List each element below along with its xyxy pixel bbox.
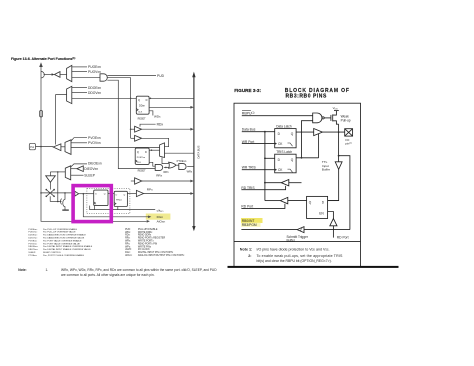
wire RD Port buffer out [265,200,280,202]
wire pin line [41,192,75,194]
node pin [338,131,340,133]
schmitt X symbol [46,189,62,201]
node drain-pin [64,192,66,194]
pad squiggle [41,71,44,78]
svg-text:READ PORTx PIN: READ PORTx PIN [138,242,158,245]
wire TTL out to latch D [328,169,339,200]
latch Q-D EN [307,196,328,218]
wire buffer enable [318,134,320,158]
svg-text:RESET: RESET [138,169,147,172]
wire RBPU to NAND [242,115,313,117]
buffer RRx [135,178,142,184]
svg-text:PUD:: PUD: [125,229,131,231]
wire DIxn [83,194,148,217]
svg-text:Q: Q [291,132,294,136]
wire RRx to bus [142,180,191,182]
svg-text:Q: Q [124,194,126,196]
wire DIEOExn [71,164,87,167]
node rdx-in [130,128,132,130]
wire driver to mux3 [61,146,65,148]
wire gateA to gateB [164,166,169,168]
node databus [264,131,266,133]
svg-text:D: D [278,132,281,136]
wire NAND lower input [302,121,313,158]
yellow highlight RB0/INT [241,218,263,223]
node ddxn-bus [150,98,152,100]
wire TRIS Q [296,157,319,159]
svg-text:Pxn DIGITAL INPUT ENABLE OVERR: Pxn DIGITAL INPUT ENABLE OVERRIDE ENABLE [43,245,93,248]
svg-text:PUOExn:: PUOExn: [28,229,37,231]
svg-text:WRITE PORTx: WRITE PORTx [138,241,155,243]
node and-bus1 [130,98,132,100]
bus vertical [264,132,266,201]
svg-text:Pxn DATA DIRECTION OVERRIDE EN: Pxn DATA DIRECTION OVERRIDE ENABLE [43,234,86,237]
svg-text:Pull-up: Pull-up [341,118,351,122]
svg-text:pin(1): pin(1) [345,142,352,146]
driver buffer [53,144,61,151]
wire latch D input [328,200,339,202]
wire AND1 down bus1 [107,78,130,139]
wire PUOExn [72,66,87,68]
yellow highlight DIxn [146,214,171,220]
svg-text:D: D [322,201,325,205]
wire to latch1 [79,193,94,195]
TRIS latch [275,150,296,173]
wire tris d [265,157,275,159]
svg-text:Pxn DIGITAL INPUT ENABLE OVERR: Pxn DIGITAL INPUT ENABLE OVERRIDE VALUE [43,248,91,251]
node tris-d [264,157,266,159]
svg-text:AIOxn:: AIOxn: [125,254,132,257]
figure border box [234,103,361,266]
svg-text:Pxn PULL-UP OVERRIDE ENABLE: Pxn PULL-UP OVERRIDE ENABLE [43,228,78,231]
svg-text:PVOVxn: PVOVxn [88,141,101,145]
svg-text:DDxn: DDxn [139,104,146,107]
wire schmitt in [304,229,350,231]
AND gate pull-up [100,74,107,81]
wire data latch Q to output buffer [296,131,314,133]
clk stub latch1 [94,206,96,210]
svg-text:clkI/O: clkI/O [157,208,164,213]
svg-text:Pxn: Pxn [30,147,35,149]
svg-text:Pxn PORT VALUE OVERRIDE VALUE: Pxn PORT VALUE OVERRIDE VALUE [43,242,80,245]
wire clk [90,206,156,210]
svg-text:D: D [145,151,147,154]
latch L1 [94,190,108,206]
svg-text:D: D [278,158,281,162]
svg-text:SLEEP:: SLEEP: [28,252,36,254]
svg-text:bit(s) and clear the RBPU bit: bit(s) and clear the RBPU bit (OPTION_RE… [257,259,332,263]
svg-text:WRx:: WRx: [125,241,131,243]
wire data bus [242,131,275,133]
svg-text:READ DDRx: READ DDRx [138,234,152,237]
wire EN buffer in [332,226,334,238]
wire WDx [149,111,153,116]
wire buffer to pin [322,131,344,133]
svg-text:Q: Q [309,201,312,205]
wire RPx to bus [144,193,191,195]
svg-text:L: L [95,203,97,205]
svg-text:RESET: RESET [138,117,147,120]
svg-text:PUOExn: PUOExn [88,65,101,69]
wire PVOVxn [71,142,87,144]
wire into PVO buffer [131,137,135,139]
wire inverter to mux1 [60,74,67,76]
svg-text:Q: Q [291,158,294,162]
wire mux2 to DDxn [72,97,137,99]
wire SLEEP [71,174,84,176]
svg-text:DDOVxn: DDOVxn [88,91,101,95]
LEGEND-LEFT [28,228,92,257]
wire pad to driver [36,146,54,148]
svg-text:D: D [146,99,148,102]
inverter pull-up [54,72,60,78]
svg-text:RDx: RDx [157,123,164,127]
transistor output driver [61,193,66,210]
svg-text:WRITE PINx: WRITE PINx [138,246,152,248]
node rdtris-bus [264,182,266,184]
wire latch1 to latch2 [108,193,114,195]
wire gate vertical [57,172,59,202]
svg-text:D: D [116,194,118,196]
wire PVOExn [71,138,87,141]
svg-text:Note:: Note: [18,268,26,272]
wire into RDx buffer [131,128,135,130]
node portxn-d [151,149,153,151]
svg-text:PVOExn: PVOExn [88,136,101,140]
mux5 PTOE [160,143,165,158]
svg-text:PVOVxn:: PVOVxn: [28,243,37,245]
ground [62,209,69,211]
svg-text:Data Latch: Data Latch [276,124,292,128]
svg-text:Q: Q [138,99,140,102]
wire PVO buffer to mux5 [142,138,169,146]
clk stub latch2 [117,207,119,210]
wire EN [328,212,334,219]
wire mux4 to DIEOV buffer [71,168,77,170]
svg-text:To enable weak pull-ups, set t: To enable weak pull-ups, set the appropr… [257,254,343,258]
wire DDxn Q to bus [149,106,191,108]
svg-text:DIEOExn: DIEOExn [88,161,102,165]
wire PORTxn D to mux5 [149,149,159,151]
svg-text:WRITE DDRx: WRITE DDRx [138,232,153,234]
wire to inverter2 [49,172,51,176]
wire RD TRIS buffer in [289,182,302,184]
I/O pin box [345,129,353,146]
node aio-tap [83,193,85,195]
magenta highlight box [73,186,111,222]
flip-flop PORTxn [135,148,149,164]
svg-text:Q: Q [104,194,106,196]
svg-text:WPx: WPx [163,170,169,174]
wire mosfet down to pin node [338,124,340,132]
node ttl-tap [338,155,340,157]
wire mux5 bottom [162,157,169,163]
NAND gate weak pullup [313,113,322,123]
wire to right rail [339,156,350,230]
svg-text:Figure 13-6. Alternate Port Fu: Figure 13-6. Alternate Port Functions(1) [11,57,75,61]
pin rail wire [40,66,42,193]
OR gate PTOE [169,162,176,168]
wire PUOVxn [72,71,87,73]
wire RD TRIS enable [241,186,285,190]
svg-text:DDOExn: DDOExn [88,86,101,90]
mux1 PUOE [67,65,72,81]
node pad-rail [40,146,42,148]
wire DDOVxn [72,92,87,94]
wire PUD [107,75,156,77]
flip-flop DDxn [136,96,149,114]
buffer DIEOV [77,166,83,172]
pin rail top arrow [39,62,43,67]
mosfet weak pull-up [331,111,339,125]
TTL input buffer [335,162,342,170]
wire inverter2 down [49,182,51,189]
svg-text:DATA BUS: DATA BUS [197,145,201,158]
svg-text:DDOVxn:: DDOVxn: [28,238,37,240]
data latch [275,124,296,147]
svg-text:PINxn: PINxn [116,199,123,201]
node gate-junction [165,167,167,169]
svg-text:PUD: PUD [157,74,165,78]
svg-text:WDx:: WDx: [125,232,131,234]
svg-text:DIxn:: DIxn: [125,252,131,254]
LEGEND-RIGHT [125,228,185,257]
svg-text:CK: CK [278,168,283,172]
wire RD TRIS buffer out [265,182,281,184]
wire gateB to gateC [176,164,179,166]
svg-text:I/O pins have diode protection: I/O pins have diode protection to VDD an… [257,248,330,252]
svg-text:DDOExn:: DDOExn: [28,235,37,237]
svg-text:WRx, WPx, WDx, RRx, RPx, and R: WRx, WPx, WDx, RRx, RPx, and RDx are com… [61,268,217,272]
svg-text:FIGURE 3-3:: FIGURE 3-3: [234,88,261,93]
AND gate WPx [155,164,163,170]
svg-text:RDx:: RDx: [125,235,131,237]
svg-text:1.: 1. [46,268,49,272]
svg-text:READ PORTx REGISTER: READ PORTx REGISTER [138,237,166,240]
node dieo-out [57,171,59,173]
wire DDxn to data bus [149,97,194,99]
wire into RRx [131,180,135,182]
svg-text:2:: 2: [248,254,251,258]
buffer sync-in [75,191,79,196]
wire latch Q to buffer [288,200,307,202]
wire rail to inverter [44,74,52,76]
svg-text:RBPU(1): RBPU(1) [242,111,255,115]
wire gateC to bus [187,166,194,168]
wire mux2 left down [56,95,67,145]
svg-text:TRIS Latch: TRIS Latch [276,150,292,154]
svg-text:DIGITAL INPUT PIN n ON PORTx: DIGITAL INPUT PIN n ON PORTx [138,251,174,254]
wire WR Port [242,143,275,145]
svg-text:PUOVxn: PUOVxn [88,70,101,74]
svg-text:SLEEP: SLEEP [84,174,95,178]
buffer RPx [136,190,143,196]
svg-text:DIxn: DIxn [157,215,164,219]
svg-text:RD Port: RD Port [337,235,349,239]
buffer RD TRIS [281,180,289,186]
notes separator [234,241,361,243]
wire pin name line [241,229,297,231]
buffer RD Port [280,197,288,203]
synchronizer dotted box [87,188,130,213]
pull-up resistor [40,110,43,117]
svg-text:Q: Q [137,151,139,154]
svg-text:Pxn PORT VALUE OVERRIDE ENABLE: Pxn PORT VALUE OVERRIDE ENABLE [43,239,82,242]
RIGHT-FIGURE [228,88,399,268]
svg-text:D: D [95,194,97,196]
svg-text:CLK: CLK [137,162,142,164]
data bus [193,77,195,227]
wire mux3 right [71,146,160,148]
svg-text:WDx: WDx [154,115,161,119]
buffer RDx [135,126,142,132]
wire AIOxn [41,193,147,221]
wire pin down [338,132,340,162]
svg-text:Pxn PULL-UP OVERRIDE VALUE: Pxn PULL-UP OVERRIDE VALUE [43,231,76,234]
svg-text:PTOExn: PTOExn [177,159,187,163]
wire mux5 to bus [165,152,194,154]
svg-text:are common to all ports. All o: are common to all ports. All other signa… [61,273,155,277]
svg-text:VDD: VDD [333,106,339,111]
latch PINxn [114,191,127,206]
svg-text:I/O CLOCK: I/O CLOCK [138,249,150,251]
svg-text:PORTxn: PORTxn [137,157,146,159]
output buffer [314,129,323,136]
svg-text:Buffer: Buffer [322,167,330,171]
pad box Pxn [29,143,35,150]
svg-text:DIEOExn:: DIEOExn: [28,246,38,248]
inverter input-enable [46,176,56,183]
left note [18,268,217,277]
node rail-pin [40,192,42,194]
svg-text:RPx:: RPx: [125,243,130,245]
svg-text:PULLUP DISABLE: PULLUP DISABLE [138,228,158,231]
thick bottom rule [228,266,399,268]
svg-text:WPx:: WPx: [125,246,131,248]
mux3 PVO [65,140,71,155]
wire NAND to mosfet [324,117,331,119]
wire DDOExn [72,87,87,89]
wire mux1 to AND1 [72,77,100,79]
wire WR TRIS [242,169,275,171]
svg-text:Buffer: Buffer [287,239,296,243]
wire RDx to bus [142,128,191,130]
AND gate WRx [179,164,186,170]
svg-text:EN: EN [319,212,324,216]
svg-text:RB3:RB0 PINS: RB3:RB0 PINS [286,94,327,100]
wire RDx tap [140,124,156,126]
svg-text:DIEOVxn:: DIEOVxn: [28,249,38,251]
wire RD Port enable [241,204,285,209]
svg-text:RRx:: RRx: [125,238,131,240]
mux2 DDOE [67,86,72,103]
svg-text:PTOExn:: PTOExn: [28,255,37,257]
buffer EN (up) [330,219,337,226]
svg-text:AIOxn: AIOxn [157,220,166,224]
svg-text:ANALOG INPUT/OUTPUT PIN n ON P: ANALOG INPUT/OUTPUT PIN n ON PORTx [138,254,185,257]
svg-text:Pxn, PORT TOGGLE OVERRIDE ENAB: Pxn, PORT TOGGLE OVERRIDE ENABLE [43,254,85,257]
svg-text:Note 1:: Note 1: [240,248,253,252]
svg-text:clkI/O:: clkI/O: [125,249,132,251]
wire latch2 to RPx buffer [127,193,136,195]
svg-text:DIEOVxn: DIEOVxn [84,167,98,171]
svg-text:CLK: CLK [138,111,143,113]
svg-text:Pxn DATA DIRECTION OVERRIDE VA: Pxn DATA DIRECTION OVERRIDE VALUE [43,237,85,240]
svg-text:CK: CK [278,142,283,146]
svg-text:WR TRIS: WR TRIS [242,165,257,169]
svg-text:WRx: WRx [187,169,193,173]
svg-text:Data Bus: Data Bus [242,128,256,132]
svg-text:RPx: RPx [147,188,153,192]
node tris-q [301,157,303,159]
wire AND1 down bus2 [107,80,155,168]
wire PORTxn clk feed [149,162,155,166]
svg-text:PUOVxn:: PUOVxn: [28,232,37,234]
svg-text:RRx: RRx [156,174,162,178]
svg-text:PVOExn:: PVOExn: [28,240,37,242]
svg-text:SLEEP CONTROL: SLEEP CONTROL [43,252,62,254]
mux4 DIEO [65,166,70,180]
wire mux4 output left [50,171,65,173]
svg-text:RB3/PGM: RB3/PGM [242,223,257,227]
schmitt trigger buffer [297,227,304,233]
buffer PVO [135,135,142,141]
